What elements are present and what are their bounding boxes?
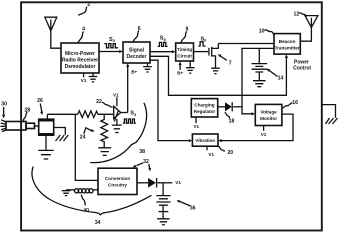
ground under box 6 xyxy=(143,63,152,72)
box 10 Beacon Transmitter xyxy=(274,34,300,55)
V1 above comparator 22 xyxy=(113,92,119,106)
B+ arrow into box 6 bottom xyxy=(126,63,137,112)
wire mic top to rail xyxy=(46,114,48,119)
Power Control text xyxy=(293,60,311,72)
label 18 xyxy=(225,112,235,124)
label 34 xyxy=(95,220,101,226)
ground at coil xyxy=(62,191,71,196)
svg-text:Monitor: Monitor xyxy=(260,116,277,121)
comparator 22 xyxy=(114,106,121,121)
battery 36 xyxy=(156,183,170,219)
svg-text:Control: Control xyxy=(293,65,311,71)
svg-text:30: 30 xyxy=(1,102,7,108)
wire junction down to conversion circuitry xyxy=(75,114,98,180)
brace 34 xyxy=(32,167,152,215)
svg-text:S3: S3 xyxy=(109,37,116,43)
svg-text:Micro-Power: Micro-Power xyxy=(65,51,95,57)
ground under mic xyxy=(38,150,54,159)
label 12 xyxy=(294,11,307,17)
wire conversion to diode 32 xyxy=(137,182,148,184)
svg-text:36: 36 xyxy=(190,205,196,211)
label 20 xyxy=(218,146,233,155)
wire charging regulator to diode 18 xyxy=(218,106,226,108)
svg-text:28: 28 xyxy=(25,107,31,113)
label 24 arrow xyxy=(80,128,95,141)
ground under box 8 xyxy=(186,61,195,73)
wire comparator output up to decoder xyxy=(121,112,128,114)
svg-text:Regulator: Regulator xyxy=(194,109,216,114)
box 16 Voltage Monitor xyxy=(255,104,282,125)
label 14 arrow xyxy=(266,69,283,82)
svg-text:2: 2 xyxy=(87,2,90,8)
antenna 2 xyxy=(45,17,61,48)
svg-text:Conversion: Conversion xyxy=(105,176,130,181)
label 28 xyxy=(23,107,30,121)
label 38 xyxy=(139,149,145,155)
wire transistor drain to beacon transmitter xyxy=(218,43,274,45)
ground under box 4 xyxy=(89,73,98,82)
signal S6 label and waveform xyxy=(198,36,207,46)
V1 stub under box 4 xyxy=(81,73,87,83)
label 40 xyxy=(81,195,89,214)
resistor (horizontal) xyxy=(78,111,98,118)
svg-text:V1: V1 xyxy=(175,180,181,185)
signal S4 label and waveform xyxy=(123,111,137,124)
svg-text:Decoder: Decoder xyxy=(126,54,146,60)
svg-text:B+: B+ xyxy=(177,70,183,75)
chassis ground at mic xyxy=(56,135,69,141)
ground under transistor 7 xyxy=(211,68,220,73)
box Conversion Circuitry xyxy=(98,168,137,194)
wire diode 18 to V+ rail xyxy=(233,106,242,108)
svg-text:B+: B+ xyxy=(131,70,137,75)
svg-text:Demodulator: Demodulator xyxy=(65,64,96,70)
signal S5 label and waveform xyxy=(158,36,168,47)
label 7 arrow xyxy=(218,54,232,66)
transistor 7 xyxy=(209,44,218,69)
svg-text:Charging: Charging xyxy=(194,102,214,107)
resistor (vertical) 24 xyxy=(101,114,108,147)
ground under battery 14 xyxy=(253,81,266,87)
svg-text:22: 22 xyxy=(96,99,102,105)
V1 stub under vibration xyxy=(207,146,214,157)
box Charging Regulator xyxy=(191,99,217,117)
svg-text:Signal: Signal xyxy=(129,47,145,53)
V1 stub under voltage monitor xyxy=(261,126,267,137)
plug 28 xyxy=(0,120,38,132)
label 8 xyxy=(181,27,189,43)
label 32 arrows xyxy=(133,159,152,171)
label 2 xyxy=(78,2,90,16)
wire power control: decoder to beacon bottom xyxy=(150,54,288,95)
wire beacon lower input / V+ rail to voltage monitor xyxy=(242,48,274,115)
svg-text:Voltage: Voltage xyxy=(260,109,277,114)
svg-text:V1: V1 xyxy=(193,124,199,129)
svg-text:4: 4 xyxy=(82,26,85,32)
label 36 arrow xyxy=(177,200,196,211)
V1 stub under charging regulator xyxy=(193,117,199,129)
svg-text:Transmitter: Transmitter xyxy=(275,45,300,50)
svg-text:10: 10 xyxy=(259,28,265,34)
wire diode 32 to V1 xyxy=(158,180,182,185)
box 4 Micro-Power Radio Receiver Demodulator xyxy=(61,43,99,73)
svg-text:16: 16 xyxy=(292,100,298,106)
battery 14 xyxy=(252,48,268,80)
svg-text:S5: S5 xyxy=(160,36,167,42)
label 4 xyxy=(78,26,85,43)
B+ arrow into box 8 bottom xyxy=(177,62,183,76)
svg-text:26: 26 xyxy=(37,98,43,104)
label 30 arrow xyxy=(1,102,7,119)
label 22 xyxy=(96,99,112,107)
svg-text:V1: V1 xyxy=(261,132,267,137)
label 10 xyxy=(259,28,274,35)
svg-text:V1: V1 xyxy=(113,92,119,97)
enclosure arc 38 xyxy=(90,103,146,163)
ground under comparator 22 xyxy=(112,119,122,133)
svg-text:20: 20 xyxy=(227,150,233,156)
label 6 xyxy=(133,26,141,42)
wire mic right to chassis ground xyxy=(54,128,66,135)
svg-text:Radio Receiver: Radio Receiver xyxy=(62,58,98,64)
svg-text:38: 38 xyxy=(139,149,145,155)
wire decoder to vibration xyxy=(150,60,192,142)
svg-text:34: 34 xyxy=(95,220,101,226)
svg-text:Beacon: Beacon xyxy=(279,39,296,44)
svg-text:V1: V1 xyxy=(208,152,214,157)
label 26 arrow xyxy=(37,98,43,115)
svg-text:V1: V1 xyxy=(81,78,87,83)
svg-text:32: 32 xyxy=(143,159,149,165)
ground under resistor 24 xyxy=(98,148,111,156)
box 20 Vibration xyxy=(192,134,218,146)
svg-text:Timing: Timing xyxy=(177,47,192,52)
wire voltage monitor to vibration xyxy=(218,114,293,142)
coil 40 xyxy=(66,189,98,193)
wire timing circuit to transistor gate xyxy=(194,51,209,53)
svg-text:7: 7 xyxy=(229,60,232,66)
svg-text:12: 12 xyxy=(294,11,300,17)
box 8 Timing Circuit xyxy=(176,43,194,61)
svg-text:S4: S4 xyxy=(130,111,137,117)
rail from mic to comparator xyxy=(47,113,113,115)
chassis ground outside right border xyxy=(323,105,338,124)
signal S3 label and waveform xyxy=(104,37,118,48)
diode 18 xyxy=(225,102,232,111)
ground under battery 36 xyxy=(157,219,170,225)
wire demodulator to signal decoder xyxy=(99,50,123,53)
antenna 12 xyxy=(300,16,318,42)
svg-text:14: 14 xyxy=(278,76,284,82)
diode 32 xyxy=(148,178,157,188)
wire mic bottom to ground xyxy=(45,135,47,150)
microphone 26 xyxy=(39,119,54,135)
wire signal decoder to timing circuit xyxy=(150,50,176,53)
svg-text:Vibration: Vibration xyxy=(195,138,215,143)
svg-text:18: 18 xyxy=(229,118,235,124)
svg-text:24: 24 xyxy=(80,134,86,140)
svg-text:Circuit: Circuit xyxy=(177,53,192,58)
box 6 Signal Decoder xyxy=(123,42,150,63)
label 16 xyxy=(282,100,298,108)
svg-text:Circuitry: Circuitry xyxy=(108,183,127,188)
